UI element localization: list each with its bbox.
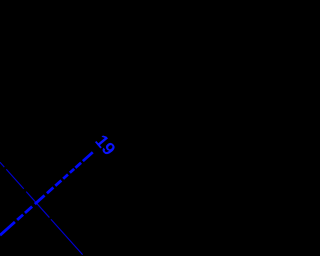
wire: thin dashed blue line running from upper-left edge down to bottom edge — [0, 162, 83, 254]
wire: thick dashed blue line rising from left edge toward label 19 — [0, 152, 94, 236]
